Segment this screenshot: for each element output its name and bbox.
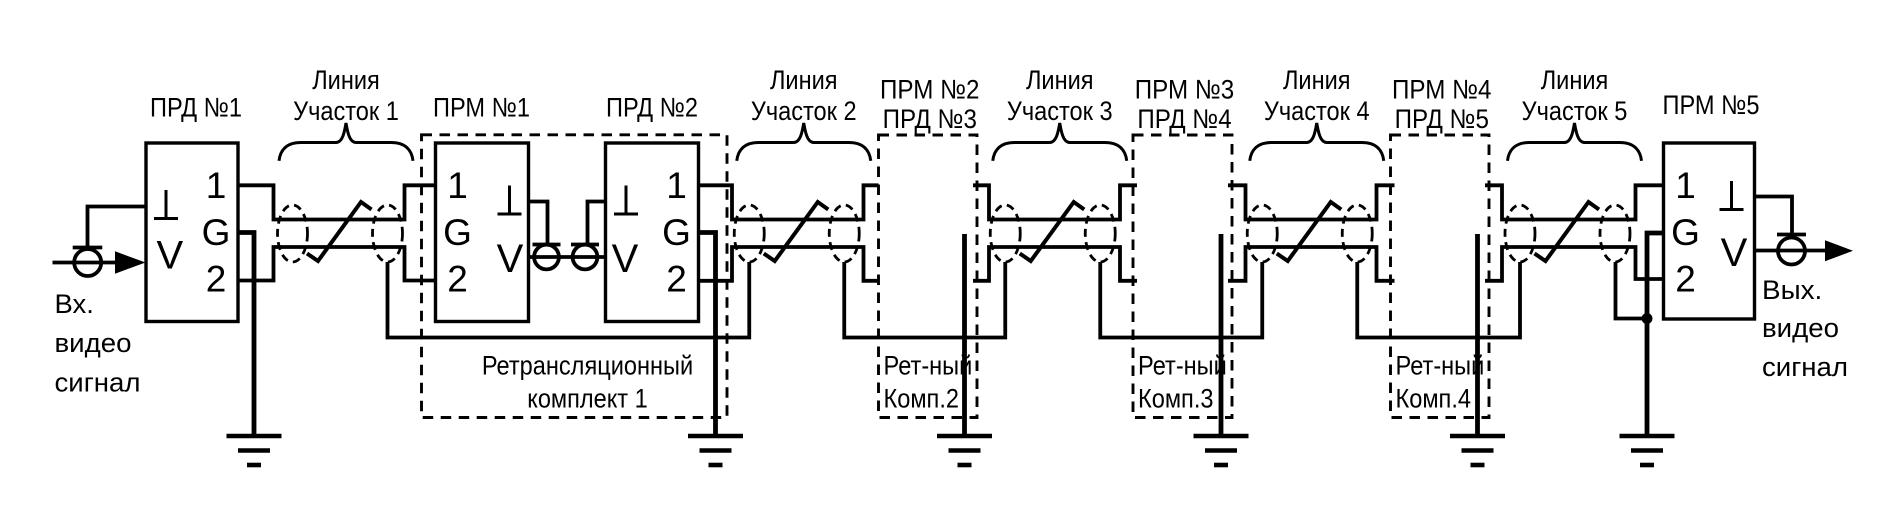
connector circle (left): [534, 245, 559, 270]
svg-text:1: 1: [666, 165, 687, 206]
connector shield bar (left): [533, 243, 561, 247]
wire: line 4 shield to ground rail: [1357, 262, 1520, 338]
svg-text:ПРД №1: ПРД №1: [150, 93, 242, 123]
svg-text:Комп.4: Комп.4: [1396, 384, 1472, 414]
ПРД №1 ground symbol pin (⊥): [165, 190, 168, 219]
label ПРМ №3 ПРД №4: [1135, 75, 1234, 134]
svg-text:Участок 2: Участок 2: [751, 96, 857, 126]
svg-text:ПРД №2: ПРД №2: [606, 93, 698, 123]
wire: line 2 pair top conductor: [699, 185, 879, 219]
svg-text:видео: видео: [55, 328, 132, 358]
brace (line section 2): [737, 123, 871, 161]
wire: V link ПРМ №1 to ПРД №2: [529, 255, 606, 259]
wire: repeater 2 ground lead: [962, 234, 967, 436]
svg-text:2: 2: [1675, 259, 1696, 300]
wire: line 4 pair bottom conductor: [1228, 247, 1395, 281]
output connector circle: [1778, 238, 1805, 265]
ПРД №1 pin labels 1 G 2: [202, 165, 231, 299]
label Линия Участок 1: [293, 65, 399, 126]
wire: ПРД №2 ⊥ to connector: [588, 202, 606, 245]
receiver ПРМ №1 box: [436, 143, 529, 322]
ПРМ №5 ground symbol pin (⊥): [1730, 181, 1733, 210]
svg-text:G: G: [202, 212, 231, 253]
svg-text:Рет-ный: Рет-ный: [884, 351, 973, 381]
svg-text:Рет-ный: Рет-ный: [1138, 351, 1227, 381]
dashed box repeater 4: [1391, 135, 1490, 418]
junction node (output ground): [1642, 313, 1653, 324]
svg-text:1: 1: [206, 165, 227, 206]
svg-text:Вых.: Вых.: [1762, 275, 1822, 305]
svg-text:Участок 5: Участок 5: [1522, 96, 1628, 126]
transmitter ПРД №2 box: [606, 143, 699, 322]
cable sheath left ellipse (line 1): [278, 205, 308, 262]
twisted-pair crossover symbol (line 1): [307, 202, 372, 261]
wire: output video signal line: [1755, 249, 1828, 253]
brace (line section 5): [1508, 123, 1642, 161]
label Линия Участок 4: [1264, 65, 1370, 126]
output connector shield bar: [1777, 233, 1806, 237]
cable sheath right ellipse (line 3): [1085, 205, 1115, 262]
ПРМ №5 pin labels 1 G 2: [1671, 165, 1700, 299]
label ПРМ №2 ПРД №3: [880, 75, 979, 134]
label Линия Участок 5: [1522, 65, 1628, 126]
ground (ПРД №1): [227, 436, 282, 465]
connector shield bar (right): [571, 243, 599, 247]
svg-text:ПРМ №2: ПРМ №2: [880, 75, 979, 105]
cable sheath right ellipse (line 1): [373, 205, 403, 262]
label Линия Участок 2: [751, 65, 857, 126]
cable sheath right ellipse (line 2): [829, 205, 859, 262]
wire: line 3 shield to ground rail: [1100, 262, 1262, 338]
wire: line 5 shield to output ground node: [1616, 262, 1648, 319]
svg-text:G: G: [662, 212, 691, 253]
svg-text:ПРД №4: ПРД №4: [1137, 104, 1231, 134]
svg-text:Участок 1: Участок 1: [293, 96, 399, 126]
svg-text:сигнал: сигнал: [55, 367, 141, 397]
wire: ПРМ №5 pin G to earth: [1647, 233, 1664, 436]
wire: repeater 4 ground lead: [1475, 234, 1480, 436]
input connector circle: [74, 249, 101, 276]
svg-text:V: V: [156, 234, 183, 278]
label Линия Участок 3: [1007, 65, 1113, 126]
cable sheath left ellipse (line 4): [1247, 205, 1277, 262]
label Рет-ный Комп.2: [884, 351, 973, 414]
svg-text:Линия: Линия: [1026, 65, 1094, 95]
receiver ПРМ №5 box: [1664, 143, 1755, 319]
ground (repeater 4): [1450, 436, 1505, 465]
wire: line 4 pair top conductor: [1228, 185, 1395, 219]
svg-text:ПРМ №3: ПРМ №3: [1135, 75, 1234, 105]
brace (line section 3): [993, 123, 1127, 161]
input connector shield bar: [73, 246, 103, 250]
wire: input video signal line: [53, 261, 120, 265]
svg-text:Линия: Линия: [1541, 65, 1609, 95]
svg-text:Линия: Линия: [312, 65, 380, 95]
wire: line 1 pair top conductor: [238, 185, 436, 219]
ПРМ №1 ground symbol pin (⊥): [508, 186, 511, 215]
svg-text:2: 2: [666, 259, 687, 300]
svg-text:G: G: [1671, 212, 1700, 253]
dashed box repeater 2: [879, 135, 978, 418]
svg-text:V: V: [1721, 231, 1748, 275]
svg-text:Комп.2: Комп.2: [884, 384, 960, 414]
svg-text:Линия: Линия: [1283, 65, 1351, 95]
svg-text:комплект 1: комплект 1: [527, 384, 648, 414]
svg-text:1: 1: [1675, 165, 1696, 206]
wire: ПРД №2 pin G to earth: [699, 233, 716, 437]
wire: ПРМ №1 ⊥ to connector: [529, 202, 548, 245]
svg-text:ПРД №3: ПРД №3: [883, 104, 977, 134]
wire: line 1 pair bottom conductor: [238, 247, 436, 281]
twisted-pair crossover symbol (line 3): [1020, 202, 1085, 261]
wire: line 1 shield to ground rail: [388, 262, 750, 338]
dashed box repeater 3: [1133, 135, 1232, 418]
svg-text:Ретрансляционный: Ретрансляционный: [482, 351, 693, 381]
input signal arrowhead: [115, 251, 146, 273]
ПРД №2 ground symbol pin (⊥): [625, 186, 628, 215]
svg-text:1: 1: [447, 165, 468, 206]
ground (repeater 3): [1194, 436, 1249, 465]
cable sheath right ellipse (line 5): [1600, 205, 1630, 262]
wire: ПРД №1 pin G to earth: [238, 233, 254, 437]
cable sheath left ellipse (line 3): [990, 205, 1020, 262]
output signal arrowhead: [1825, 240, 1853, 261]
wire: line 2 pair bottom conductor: [699, 247, 879, 281]
svg-text:сигнал: сигнал: [1762, 352, 1848, 382]
twisted-pair crossover symbol (line 2): [764, 202, 829, 261]
ground (комплект 1): [688, 436, 743, 465]
wire: input shield to PRD1 ground pin: [88, 207, 147, 248]
svg-text:видео: видео: [1762, 313, 1839, 343]
svg-text:V: V: [497, 237, 524, 281]
ground (ПРМ №5): [1620, 436, 1675, 465]
wire: line 5 pair bottom conductor: [1485, 247, 1664, 281]
svg-text:G: G: [443, 212, 472, 253]
wire: line 2 shield to ground rail: [844, 262, 1005, 338]
svg-text:ПРД №5: ПРД №5: [1395, 104, 1489, 134]
ПРД №2 pin labels 1 G 2: [662, 165, 691, 299]
ПРМ №1 pin labels 1 G 2: [443, 165, 472, 299]
brace (line section 1): [279, 123, 413, 161]
label Рет-ный Комп.3: [1138, 351, 1227, 414]
label ПРМ №4 ПРД №5: [1392, 75, 1491, 134]
ground (repeater 2): [937, 436, 992, 465]
label Рет-ный Комп.4: [1396, 351, 1485, 414]
svg-text:2: 2: [206, 259, 227, 300]
twisted-pair crossover symbol (line 5): [1535, 202, 1600, 261]
brace (line section 4): [1250, 123, 1384, 161]
label Вх. видео сигнал: [55, 289, 141, 398]
wire: line 3 pair top conductor: [973, 185, 1137, 219]
svg-text:Рет-ный: Рет-ный: [1396, 351, 1485, 381]
svg-text:2: 2: [447, 259, 468, 300]
svg-text:Участок 3: Участок 3: [1007, 96, 1113, 126]
cable sheath right ellipse (line 4): [1342, 205, 1372, 262]
label Вых. видео сигнал: [1762, 275, 1848, 382]
svg-text:Комп.3: Комп.3: [1138, 384, 1214, 414]
svg-text:ПРМ №5: ПРМ №5: [1663, 90, 1760, 120]
svg-text:ПРМ №1: ПРМ №1: [433, 93, 530, 123]
svg-text:ПРМ №4: ПРМ №4: [1392, 75, 1491, 105]
svg-text:Участок 4: Участок 4: [1264, 96, 1370, 126]
wire: repeater 3 ground lead: [1219, 234, 1224, 436]
connector circle (right): [573, 245, 598, 270]
transmitter ПРД №1 box: [146, 143, 238, 322]
wire: line 3 pair bottom conductor: [973, 247, 1137, 281]
cable sheath left ellipse (line 5): [1505, 205, 1535, 262]
svg-text:Линия: Линия: [770, 65, 838, 95]
wire: line 5 pair top conductor: [1485, 185, 1664, 219]
svg-text:V: V: [612, 237, 639, 281]
label Ретрансляционный комплект 1: [482, 351, 693, 414]
svg-text:Вх.: Вх.: [55, 289, 94, 319]
wire: ПРМ №5 ⊥ to output connector: [1755, 197, 1793, 235]
cable sheath left ellipse (line 2): [734, 205, 764, 262]
dashed box Ретрансляционный комплект 1: [422, 135, 728, 418]
twisted-pair crossover symbol (line 4): [1277, 202, 1342, 261]
